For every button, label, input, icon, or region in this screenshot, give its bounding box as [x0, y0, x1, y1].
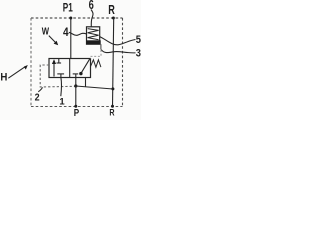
node R bottom dot: [111, 105, 114, 108]
spring 5 (zigzag inside box): [88, 29, 99, 40]
svg-text:R: R: [108, 3, 115, 17]
wire R vertical through box: [113, 18, 114, 107]
arrow H: [8, 67, 25, 78]
blocked port top (left cell): [58, 59, 60, 63]
piston 3 (black bar): [86, 40, 100, 44]
blocked port bottom T (left cell): [57, 73, 64, 75]
poppet ball: [79, 72, 82, 75]
node junction dot at R link: [111, 87, 114, 90]
enclosure dashed border top: [31, 17, 123, 19]
valve divider: [69, 59, 71, 78]
svg-text:P1: P1: [63, 1, 73, 15]
svg-text:1: 1: [59, 96, 65, 107]
leader 2: [38, 87, 42, 92]
valve V1 body: [49, 59, 91, 78]
enclosure dashed border left: [30, 18, 32, 107]
wire P down to border: [75, 86, 77, 107]
svg-text:P: P: [74, 108, 80, 119]
svg-text:5: 5: [136, 34, 141, 46]
wire cross link to R: [76, 86, 113, 89]
spring of valve (right side): [91, 60, 101, 68]
leader 1 from bottom blocked port: [60, 78, 63, 97]
node A junction dot: [74, 84, 77, 87]
enclosure dashed border bottom: [31, 106, 123, 108]
wire R stem from valve: [85, 78, 87, 87]
svg-text:3: 3: [136, 47, 141, 59]
leader 6 to pilot unit: [91, 10, 93, 27]
blocked port T (right cell, port P): [73, 73, 79, 75]
svg-text:4: 4: [63, 27, 69, 39]
mech link dashed (pin to valve corner): [91, 50, 102, 59]
node P1 (junction dot on top border): [69, 17, 72, 20]
arrow W: [49, 36, 56, 43]
leader 3 from pin: [101, 50, 135, 53]
pilot unit body U (box): [87, 27, 100, 44]
node R top (junction dot on top border): [112, 17, 115, 20]
leader 5 from spring: [100, 37, 136, 45]
svg-text:2: 2: [35, 92, 40, 103]
svg-text:H: H: [0, 72, 7, 84]
pin of piston: [100, 44, 102, 49]
leader 4 to pilot unit: [69, 32, 87, 35]
seat poppet diagonal (right cell): [81, 59, 90, 73]
wire P1 down to valve: [70, 18, 72, 59]
pilot line dashed (valve left face around to P): [40, 65, 76, 87]
wire P stem (valve T down to junction): [75, 74, 77, 86]
node P bottom dot: [74, 105, 77, 108]
enclosure dashed border right: [122, 18, 124, 107]
svg-text:R: R: [109, 107, 114, 118]
svg-text:W: W: [42, 27, 50, 38]
flow arrow (left cell, up): [53, 63, 55, 77]
